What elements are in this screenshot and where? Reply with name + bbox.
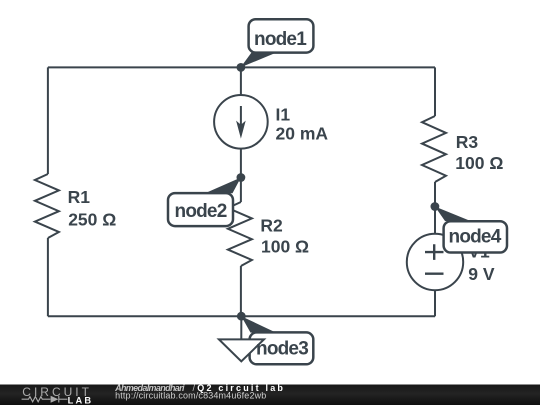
wire middle branch top [240, 67, 242, 95]
node1 callout pointer [241, 53, 277, 68]
node dot node1 [237, 63, 246, 72]
wire bottom rail node3 [48, 315, 435, 317]
node1 callout box [249, 19, 314, 52]
wire left branch lower [47, 238, 49, 316]
svg-text:LAB: LAB [68, 395, 94, 405]
current source I1 arrowhead [236, 121, 246, 139]
svg-text:20 mA: 20 mA [276, 124, 329, 144]
svg-text:100 Ω: 100 Ω [455, 153, 503, 173]
svg-text:node4: node4 [449, 226, 502, 247]
wire R3 to node4 [434, 182, 436, 234]
svg-text:250 Ω: 250 Ω [68, 210, 116, 230]
node dot node3 [237, 312, 246, 321]
node3 callout pointer [241, 316, 276, 332]
footer bar [0, 385, 540, 405]
wire R2 to bottom rail [240, 266, 242, 316]
ground symbol [219, 316, 264, 361]
wire V1 to bottom rail [434, 290, 436, 316]
svg-text:node2: node2 [175, 201, 227, 222]
voltage source V1 circle [407, 234, 463, 290]
svg-text:R1: R1 [68, 187, 91, 207]
svg-text:node3: node3 [256, 339, 308, 360]
node2 callout pointer [205, 178, 241, 194]
node dot node4 [431, 202, 440, 211]
wire top rail node1 [48, 66, 435, 68]
node2 callout box [168, 193, 233, 226]
wire left branch upper [47, 67, 49, 174]
svg-text:R2: R2 [260, 216, 283, 236]
voltage source V1 minus sign [425, 273, 444, 275]
voltage source V1 plus sign [425, 244, 444, 260]
current source I1 circle [214, 95, 268, 149]
resistor R3 [422, 116, 446, 182]
svg-text:9 V: 9 V [468, 264, 495, 284]
node4 callout pointer [435, 207, 471, 222]
wire right branch upper [434, 67, 436, 116]
wire I1 to node2 [240, 149, 242, 202]
footer logo schematic glyph (wire resistor diode) [22, 396, 68, 403]
svg-text:100 Ω: 100 Ω [261, 237, 309, 257]
svg-text:http://circuitlab.com/c834m4u6: http://circuitlab.com/c834m4u6fe2wb [115, 391, 266, 401]
svg-text:R3: R3 [456, 132, 479, 152]
resistor R2 [228, 202, 252, 266]
node4 callout box [444, 221, 507, 252]
resistor R1 [35, 174, 59, 238]
node dot node2 [237, 173, 246, 182]
node3 callout box [250, 332, 314, 364]
current source I1 arrow shaft [240, 106, 242, 128]
svg-text:node1: node1 [254, 29, 307, 50]
svg-text:I1: I1 [276, 105, 291, 125]
